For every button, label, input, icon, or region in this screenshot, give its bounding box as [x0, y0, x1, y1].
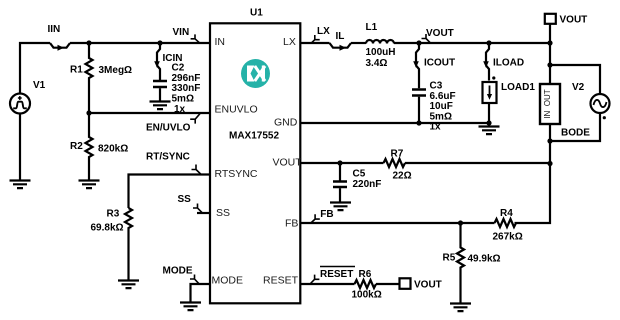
current probe ILOAD	[483, 43, 489, 81]
wire RTSYNC to R3	[129, 175, 211, 209]
svg-text:ENUVLO: ENUVLO	[215, 104, 258, 116]
wire V1 bottom	[19, 114, 21, 181]
node junction ICIN	[157, 40, 162, 45]
node junction VOUT bus	[547, 40, 552, 45]
svg-text:MODE: MODE	[163, 266, 193, 277]
svg-text:V1: V1	[33, 80, 46, 91]
svg-text:R2: R2	[70, 141, 83, 152]
svg-text:VOUT: VOUT	[426, 28, 454, 39]
net label FB	[311, 214, 320, 223]
wire V1 top	[20, 43, 50, 94]
node junction ILOAD bottom	[486, 120, 491, 125]
voltage source V2	[591, 94, 610, 119]
ground R2	[79, 181, 100, 189]
svg-text:ILOAD: ILOAD	[493, 58, 524, 69]
svg-text:MODE: MODE	[212, 275, 244, 287]
svg-text:U1: U1	[250, 8, 263, 19]
op-amp U1 chip body	[210, 23, 300, 303]
current probe ICIN	[154, 43, 160, 81]
wire EN/UVLO row	[89, 112, 210, 114]
svg-text:RESET: RESET	[263, 275, 299, 287]
node junction C5	[337, 160, 342, 165]
net label RT/SYNC	[192, 165, 202, 175]
svg-text:100uH: 100uH	[366, 47, 396, 58]
capacitor C3	[412, 90, 426, 124]
wire FB row	[300, 222, 461, 224]
ground ILOAD	[479, 127, 500, 135]
svg-text:GND: GND	[274, 116, 298, 128]
node junction R7 row	[547, 161, 552, 166]
wire L1 to VOUT node	[394, 42, 550, 44]
node junction R1/R2	[86, 110, 91, 115]
svg-text:VOUT: VOUT	[273, 156, 303, 168]
svg-text:5mΩ: 5mΩ	[172, 93, 194, 104]
net label VIN	[191, 34, 200, 42]
svg-text:SS: SS	[178, 194, 192, 205]
svg-text:SS: SS	[216, 207, 230, 219]
svg-text:LX: LX	[317, 26, 330, 37]
net label SS	[193, 204, 202, 213]
capacitor C5	[333, 163, 347, 203]
inductor L1	[366, 40, 394, 44]
svg-text:1x: 1x	[174, 104, 186, 115]
svg-text:EN/UVLO: EN/UVLO	[146, 123, 191, 134]
capacitor C2	[153, 81, 167, 102]
resistor R1	[86, 43, 93, 113]
svg-text:ICOUT: ICOUT	[424, 58, 455, 69]
svg-text:267kΩ: 267kΩ	[493, 232, 523, 243]
svg-text:820kΩ: 820kΩ	[98, 144, 128, 155]
wire V2 top branch	[550, 65, 600, 94]
svg-text:22Ω: 22Ω	[393, 171, 412, 182]
node junction V2 top branch	[547, 62, 552, 67]
svg-text:IN OUT: IN OUT	[543, 89, 552, 118]
voltage source V1	[10, 94, 30, 114]
svg-text:LOAD1: LOAD1	[501, 82, 535, 93]
node junction R1 top	[86, 40, 91, 45]
wire bus box to R4 row	[515, 124, 551, 223]
net label VOUT mid	[422, 34, 431, 43]
svg-text:R6: R6	[359, 269, 372, 280]
ground MODE	[180, 303, 201, 311]
svg-text:R1: R1	[70, 65, 83, 76]
svg-text:R5: R5	[443, 253, 456, 264]
svg-text:VIN: VIN	[173, 27, 190, 38]
resistor R6	[355, 280, 377, 288]
load LOAD1	[483, 76, 497, 103]
svg-text:IIN: IIN	[48, 24, 61, 35]
node junction V2 bottom	[547, 138, 552, 143]
wire FB node to R4	[461, 222, 495, 224]
svg-text:R4: R4	[500, 208, 513, 219]
resistor R5	[457, 223, 464, 304]
current probe IIN	[50, 43, 70, 51]
Maxim logo	[241, 59, 270, 88]
net label RESET	[311, 267, 356, 284]
resistor R2	[86, 113, 93, 181]
svg-text:3.4Ω: 3.4Ω	[366, 58, 388, 69]
svg-text:100kΩ: 100kΩ	[352, 290, 382, 301]
svg-text:49.9kΩ: 49.9kΩ	[468, 254, 501, 265]
ground R3	[118, 281, 139, 289]
net label MODE	[190, 275, 199, 284]
wire MODE to ground	[191, 284, 211, 303]
wire LX pin	[300, 42, 330, 44]
svg-text:VOUT: VOUT	[560, 15, 588, 26]
current probe ICOUT	[413, 43, 419, 88]
wire V2 bottom branch	[550, 113, 600, 141]
svg-text:MAX17552: MAX17552	[229, 131, 279, 142]
svg-text:220nF: 220nF	[353, 179, 382, 190]
node junction ICOUT	[416, 40, 421, 45]
svg-text:3MegΩ: 3MegΩ	[99, 65, 133, 76]
ground C5	[330, 203, 351, 211]
svg-text:LX: LX	[283, 36, 296, 48]
terminal VOUT reset row	[400, 278, 411, 289]
ground R5	[450, 304, 471, 312]
wire top rail to IN pin	[70, 42, 210, 44]
svg-text:L1: L1	[366, 22, 378, 33]
net label LX	[311, 35, 320, 43]
node junction ILOAD	[486, 40, 491, 45]
node junction FB divider	[458, 220, 463, 225]
svg-text:VOUT: VOUT	[414, 280, 442, 291]
svg-text:69.8kΩ: 69.8kΩ	[91, 223, 124, 234]
ground V1	[10, 181, 31, 189]
svg-text:R3: R3	[107, 209, 120, 220]
current probe IL	[330, 43, 352, 51]
resistor R3	[125, 208, 132, 281]
resistor R7	[384, 159, 406, 167]
svg-text:RESET: RESET	[320, 269, 353, 280]
wire SS stub	[197, 212, 210, 214]
wire terminal to rail	[549, 24, 551, 43]
wire IL to L1	[351, 42, 366, 44]
svg-text:IN: IN	[215, 36, 226, 48]
wire VOUT pin row	[300, 162, 384, 164]
svg-text:R7: R7	[391, 149, 404, 160]
svg-text:FB: FB	[285, 218, 298, 230]
node junction C3 bottom	[416, 120, 421, 125]
svg-text:BODE: BODE	[561, 128, 590, 139]
svg-text:RTSYNC: RTSYNC	[215, 168, 258, 180]
resistor R4	[495, 219, 517, 227]
wire GND bus	[300, 122, 489, 124]
net label EN/UVLO	[190, 114, 200, 124]
bode probe IN OUT box	[540, 84, 560, 124]
wire LOAD1 to gnd bus	[488, 103, 490, 123]
wire VOUT bus down	[549, 43, 551, 84]
svg-text:FB: FB	[320, 209, 333, 220]
ground C2	[150, 102, 171, 110]
svg-text:RT/SYNC: RT/SYNC	[146, 152, 190, 163]
svg-text:IL: IL	[336, 31, 345, 42]
wire RESET pin to R6	[300, 283, 355, 285]
wire R7 to bus	[405, 162, 550, 164]
terminal VOUT top	[545, 14, 556, 24]
svg-text:V2: V2	[572, 82, 585, 93]
wire R6 to terminal	[376, 283, 400, 285]
